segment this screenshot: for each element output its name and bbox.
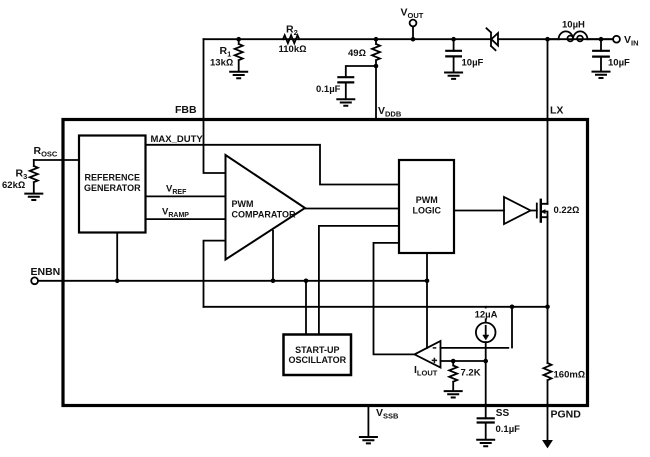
big IC box outline [63, 120, 588, 406]
svg-text:10µF: 10µF [462, 58, 484, 69]
svg-text:13kΩ: 13kΩ [210, 58, 233, 69]
wire mosfet source down to current sense bus and 160mohm [547, 217, 549, 363]
capacitor C 10uF right [593, 39, 609, 71]
svg-text:0.22Ω: 0.22Ω [554, 205, 580, 216]
node oscillator stub junction [304, 279, 309, 284]
buffer driver triangle [504, 197, 531, 224]
ground (10uF left) [445, 73, 462, 79]
wire top rail right (LX to VIN) [498, 38, 613, 40]
label comparator plus [432, 358, 437, 363]
wire PWM logic bottom to ILOUT comparator [426, 253, 428, 348]
label comparator minus [433, 347, 437, 349]
svg-text:GENERATOR: GENERATOR [84, 183, 141, 193]
wire FBB vertical from rail into box to comparator input 1 [204, 39, 226, 173]
svg-text:160mΩ: 160mΩ [554, 370, 586, 381]
node SS junction [483, 359, 488, 364]
node 49ohm tap [374, 37, 379, 42]
node VIN cap tap [599, 37, 604, 42]
capacitor C 10uF left [446, 39, 461, 72]
label 12uA on white patch [473, 308, 498, 320]
svg-text:62kΩ: 62kΩ [2, 180, 25, 191]
wire bus2 stub to minus input [511, 307, 513, 348]
wire VREF [146, 195, 226, 197]
svg-text:12µA: 12µA [475, 309, 498, 320]
resistor 7.2K [449, 361, 457, 391]
ground (VSSB) [360, 437, 377, 443]
current source 12uA [476, 323, 496, 343]
svg-text:START-UP: START-UP [295, 345, 339, 355]
svg-text:LOGIC: LOGIC [413, 206, 442, 216]
diode D1 schottky [487, 28, 499, 50]
node comparator tap junction [271, 279, 276, 284]
terminal VOUT [410, 20, 417, 27]
resistor R3 [30, 160, 38, 193]
svg-text:7.2K: 7.2K [461, 368, 481, 379]
wire startup oscillator stub from ENBN bus [305, 281, 307, 335]
op-amp ILOUT comparator (points left) [415, 341, 441, 368]
svg-text:FBB: FBB [175, 104, 197, 116]
svg-text:PGND: PGND [551, 409, 582, 421]
wire SS pin drop [485, 361, 487, 418]
resistor 49 ohm [372, 39, 380, 66]
node refgen-enbn junction [115, 279, 120, 284]
ground (10uF right) [593, 72, 610, 78]
block REFERENCE GENERATOR [79, 136, 146, 233]
wire PWM logic input 3 to oscillator [319, 226, 399, 335]
svg-text:PWM: PWM [232, 199, 254, 209]
wire ILOUT output to PWM logic input 4 [374, 243, 415, 355]
svg-text:0.1µF: 0.1µF [316, 84, 341, 95]
wire ENBN bus [38, 280, 427, 282]
node pwm logic enbn junction [425, 279, 430, 284]
block START-UP OSCILLATOR [284, 335, 352, 376]
wire PWM logic output to buffer [454, 210, 504, 212]
ground (R1) [230, 72, 247, 78]
wire comparator input 4 from bus2 [204, 241, 226, 307]
capacitor C SS 0.1uF [478, 418, 494, 422]
wire cap to ground [345, 82, 347, 99]
wire VRAMP [146, 218, 226, 220]
node VDDB 0.1uF tee [374, 64, 379, 69]
svg-text:10µH: 10µH [562, 20, 585, 31]
transistor Q1 nmos [537, 200, 548, 222]
wire top rail left (VOUT net) [204, 38, 492, 40]
op-amp PWM comparator triangle [226, 155, 306, 260]
svg-text:LX: LX [550, 105, 563, 117]
ground (R3) [25, 194, 42, 200]
inductor L1 10uH [548, 31, 602, 41]
node bus2 sense junction [545, 305, 550, 310]
wire ILOUT minus input [441, 347, 509, 349]
wire current source top stub [485, 307, 487, 323]
wire LX drop from rail to mosfet drain [547, 39, 549, 204]
node VOUT tap [411, 37, 416, 42]
wire 0.1uF tee [346, 66, 376, 77]
ground PGND arrow [543, 441, 552, 448]
wire MAX_DUTY [146, 145, 400, 185]
wire VIN stub [601, 38, 613, 40]
wire current source bottom to plus node [485, 342, 487, 361]
terminal VIN [613, 36, 620, 43]
svg-text:SS: SS [496, 408, 510, 419]
node 7.2K tap [451, 359, 456, 364]
wire bus2 current sense [204, 306, 548, 308]
svg-text:10µF: 10µF [608, 58, 630, 69]
wire comparator output to PWM logic [305, 208, 399, 210]
node minus wire bus2 junction [510, 305, 515, 310]
wire buffer to gate [531, 210, 537, 212]
terminal ENBN [31, 277, 38, 284]
node R1 tap [236, 37, 241, 42]
wire ROSC pin [34, 159, 79, 161]
resistor 160mohm [544, 363, 552, 406]
wire SS cap to ground [485, 423, 487, 440]
svg-text:110kΩ: 110kΩ [279, 44, 307, 55]
resistor R1 [235, 39, 243, 71]
node VOUT terminal stub [412, 27, 414, 40]
svg-text:MAX_DUTY: MAX_DUTY [151, 134, 204, 145]
resistor R2 [283, 35, 299, 43]
block PWM LOGIC [399, 160, 454, 253]
svg-text:OSCILLATOR: OSCILLATOR [288, 355, 346, 365]
capacitor C 0.1uF top [338, 77, 353, 82]
svg-text:0.1µF: 0.1µF [496, 424, 521, 435]
ground (SS) [477, 440, 494, 446]
wire reference generator to ENBN bus [116, 233, 118, 281]
ground (0.1uF) [337, 99, 354, 105]
ground (7.2K) [445, 391, 462, 397]
svg-text:ENBN: ENBN [31, 266, 61, 278]
wire PGND pin [547, 406, 549, 442]
svg-text:COMPARATOR: COMPARATOR [232, 210, 296, 220]
svg-text:PWM: PWM [416, 195, 438, 205]
svg-text:REFERENCE: REFERENCE [85, 173, 141, 183]
svg-text:49Ω: 49Ω [348, 48, 366, 59]
node LX junction [545, 37, 550, 42]
wire VSSB pin stub [367, 406, 369, 437]
node 10uF left tap [451, 37, 456, 42]
wire VDDB pin drop [375, 66, 377, 120]
wire ILOUT plus input [441, 360, 486, 362]
wire comparator bottom tap to ENBN bus [272, 231, 274, 281]
